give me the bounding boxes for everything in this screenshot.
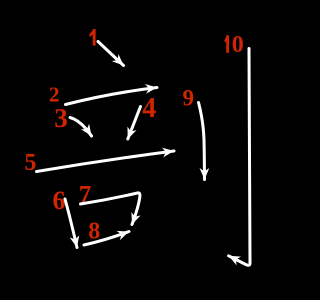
svg-text:6: 6 [53, 186, 66, 215]
stroke 2 (horizontal, arrow right) [66, 88, 158, 105]
stroke 3 (left dot, arrow down-right) [70, 118, 92, 137]
svg-text:5: 5 [24, 150, 36, 176]
stroke 4 (right dot, arrow down-left) [128, 107, 141, 140]
stroke 5 (long horizontal, arrow right) [37, 151, 175, 172]
stroke 1 (top dot, arrow down-right) [98, 42, 124, 66]
svg-text:9: 9 [183, 85, 195, 110]
svg-text:3: 3 [54, 103, 67, 133]
stroke 8 (bottom of box, arrow right) [84, 232, 129, 246]
svg-text:0: 0 [232, 32, 244, 58]
stroke 7 (top + right of box, arrow down) [81, 193, 140, 225]
stroke 1 number [89, 29, 95, 46]
svg-text:4: 4 [142, 93, 156, 124]
stroke 10 (long vertical with hook, arrow up-left) [229, 49, 250, 266]
stroke 9 (short vertical, arrow down) [199, 103, 205, 180]
stroke 6 (left side of box, arrow down) [65, 199, 77, 248]
stroke 10 number [224, 35, 229, 52]
